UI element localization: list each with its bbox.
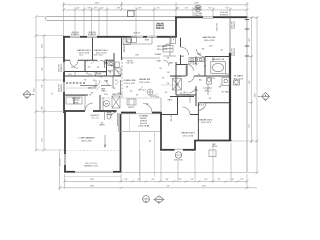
small A/C pad bottom right [209,150,216,157]
jog to bedroom2 [194,140,196,151]
svg-text:MASTER BR: MASTER BR [203,36,216,39]
svg-text:2'8: 2'8 [136,95,138,97]
svg-text:16'0: 16'0 [209,45,213,47]
patio slab lines [121,172,247,174]
bedroom3 north wall [162,114,179,116]
svg-text:10'0 x 10'0: 10'0 x 10'0 [93,54,102,56]
svg-text:A4: A4 [158,200,160,203]
entry porch walls [121,112,136,114]
svg-text:4'0": 4'0" [76,7,80,9]
svg-text:5'0: 5'0 [96,61,98,63]
right exterior wall x=247 (thin/light) [246,18,248,173]
svg-text:10'0 x 10'0: 10'0 x 10'0 [96,53,107,55]
svg-text:2'8: 2'8 [97,67,99,69]
svg-text:SHOWER: SHOWER [173,76,182,78]
svg-text:3'4: 3'4 [209,98,211,100]
master west wall [180,38,182,47]
svg-text:12'0": 12'0" [249,80,251,85]
svg-text:DW: DW [135,55,138,57]
svg-text:6'0 x 5'4: 6'0 x 5'4 [92,118,99,120]
svg-text:2668: 2668 [197,54,201,56]
svg-text:11'0": 11'0" [249,124,251,129]
round symbol at patio door [175,152,181,158]
svg-text:4'0: 4'0 [180,93,182,95]
svg-text:EGRESS: EGRESS [61,63,63,72]
right thick wall x=230 [229,53,231,141]
laundry door arc [85,103,93,111]
left exterior wall x=64 [63,36,65,113]
top dim ticks [62,3,249,11]
svg-text:17'4": 17'4" [42,138,44,143]
windows in top wall (thin) [70,36,157,37]
svg-text:4'4: 4'4 [146,104,148,106]
svg-text:A4: A4 [145,200,147,203]
laundry walls [64,94,88,96]
right section marker diamond [258,93,270,101]
svg-text:6'8: 6'8 [167,58,169,60]
svg-text:6'0": 6'0" [138,7,142,9]
svg-text:BEDROOM 3: BEDROOM 3 [94,50,108,52]
svg-text:5'8": 5'8" [176,7,180,9]
svg-text:7'4": 7'4" [156,7,160,9]
svg-text:3'4": 3'4" [204,179,207,181]
svg-text:EGRESS: EGRESS [88,34,97,36]
svg-text:12'8 CLG: 12'8 CLG [138,90,146,92]
svg-text:M. BATH: M. BATH [234,75,243,78]
svg-text:3'4: 3'4 [220,50,222,52]
svg-text:13'0": 13'0" [249,38,251,43]
svg-text:16'8: 16'8 [155,96,159,98]
svg-text:EGRESS: EGRESS [61,83,63,92]
hall/bed3 west wall [160,112,162,151]
svg-text:6'0: 6'0 [130,91,132,93]
garage left wall [64,111,66,154]
svg-text:15'4 x 20'0: 15'4 x 20'0 [139,82,150,84]
svg-text:AREA: AREA [73,101,79,104]
svg-text:2 CAR GARAGE: 2 CAR GARAGE [78,137,95,140]
svg-text:3050 SH: 3050 SH [217,23,219,31]
svg-text:9'4 x 12'0: 9'4 x 12'0 [234,78,244,80]
svg-text:10'4: 10'4 [117,76,121,78]
svg-text:16'8: 16'8 [104,94,108,96]
left section marker diamond [23,91,35,99]
bedroom3 bottom wall [160,149,175,151]
garage ceiling dashed [66,149,119,151]
svg-text:2468: 2468 [156,61,160,63]
svg-text:2: 2 [158,198,159,200]
svg-text:3'4: 3'4 [118,93,120,95]
svg-text:CLO: CLO [88,74,92,76]
svg-text:2068: 2068 [103,63,107,65]
wic walls [195,57,197,65]
svg-text:EGRESS: EGRESS [71,34,80,36]
garage door text [84,163,99,167]
svg-text:SINK: SINK [145,40,150,42]
svg-text:8'8": 8'8" [42,106,44,110]
windows in right wall [245,20,249,57]
svg-text:2068: 2068 [180,56,184,58]
svg-text:6'0": 6'0" [225,7,229,9]
svg-text:16'8: 16'8 [150,96,154,98]
svg-text:4'0: 4'0 [84,80,86,82]
svg-text:5'8": 5'8" [42,84,44,88]
svg-text:10'0: 10'0 [88,88,92,90]
svg-text:20'8": 20'8" [90,186,95,188]
svg-text:12'0 x 11'4: 12'0 x 11'4 [201,122,212,124]
svg-text:36" VAN: 36" VAN [221,91,229,94]
garage top wall [64,110,85,112]
svg-text:EGRESS: EGRESS [220,14,229,16]
svg-text:EGRESS: EGRESS [234,47,236,56]
svg-text:6'0: 6'0 [165,92,167,94]
svg-text:22'8": 22'8" [95,2,100,4]
svg-text:2'8": 2'8" [124,179,127,181]
svg-text:5'8: 5'8 [219,87,221,89]
between bedroom 4 and 3 [92,38,94,61]
svg-text:1: 1 [145,197,146,199]
dense interior dim text noise [84,61,138,97]
svg-text:GREAT RM: GREAT RM [139,78,151,81]
svg-text:2'8: 2'8 [162,78,164,80]
svg-text:6080 SGD: 6080 SGD [174,160,183,162]
svg-text:5'4 CLG: 5'4 CLG [198,104,205,106]
svg-text:11'0 x 10'0: 11'0 x 10'0 [183,135,194,137]
svg-text:24'8": 24'8" [194,2,199,4]
svg-text:GARDEN TUB: GARDEN TUB [212,58,225,61]
roof gutter lines with rounded cap [46,17,177,21]
garage bottom wall + door [64,171,75,173]
svg-text:DINING RM: DINING RM [124,80,136,82]
svg-text:11'4 x 10'0: 11'4 x 10'0 [79,53,90,55]
extra interior detail noise [88,80,153,105]
svg-text:6'8: 6'8 [202,49,204,51]
water heater [103,97,110,110]
svg-text:COND: COND [212,146,218,148]
svg-text:3'0": 3'0" [137,179,140,181]
svg-text:2'8: 2'8 [212,78,214,80]
closet walls [64,71,107,73]
kitchen west wall [121,38,123,60]
svg-text:EGRESS: EGRESS [234,20,236,29]
svg-text:5'0: 5'0 [167,83,169,85]
svg-text:6'0: 6'0 [198,74,200,76]
svg-text:6'8": 6'8" [117,7,121,9]
svg-text:ENTRY: ENTRY [128,107,135,109]
svg-text:2668: 2668 [97,74,101,76]
svg-text:CLO: CLO [68,74,72,76]
svg-text:16'0": 16'0" [90,179,95,181]
svg-text:2'0: 2'0 [117,71,119,73]
svg-text:11'4: 11'4 [79,54,82,56]
svg-text:36": 36" [111,66,114,68]
svg-text:GARAGE DOOR: GARAGE DOOR [84,164,99,167]
step wall x=176 (y17.5-35) [175,17,177,38]
svg-text:6'8: 6'8 [86,73,88,75]
svg-text:6'8: 6'8 [195,90,197,92]
svg-text:3'8": 3'8" [94,7,98,9]
svg-text:1'6: 1'6 [109,72,111,74]
svg-text:4'0": 4'0" [100,7,104,9]
bedroom2 north wall + west wall [198,102,230,104]
svg-text:3'4": 3'4" [165,179,168,181]
window labels above top wall [71,23,165,36]
svg-text:6'0 x 8'0: 6'0 x 8'0 [183,94,190,96]
bottom detail markers [143,196,164,204]
svg-text:52'0": 52'0" [34,88,36,93]
svg-text:5'8: 5'8 [113,88,115,90]
svg-text:3'4": 3'4" [151,179,154,181]
svg-text:BATH: BATH [100,124,106,127]
svg-text:PANTRY: PANTRY [123,44,126,52]
pantry with X [112,96,120,108]
svg-text:4'4: 4'4 [149,141,151,143]
svg-text:3'0: 3'0 [159,68,161,70]
top dim text [76,2,229,9]
svg-text:W.I.C. 2: W.I.C. 2 [205,91,212,93]
svg-text:2'8": 2'8" [230,179,233,181]
svg-text:24'0": 24'0" [202,186,207,188]
svg-text:6'8: 6'8 [167,72,169,74]
laundry room fixtures [66,96,85,111]
svg-text:3'0: 3'0 [88,67,90,69]
bedroom2 bottom wall [195,140,232,142]
svg-text:WINDOW: WINDOW [156,28,165,30]
svg-text:4'4": 4'4" [166,186,169,188]
svg-text:8'0 x 8'0: 8'0 x 8'0 [127,63,134,65]
powder room [105,112,118,126]
svg-text:20'0 x 20'0: 20'0 x 20'0 [81,140,92,142]
svg-text:3'0: 3'0 [115,80,117,82]
svg-text:KITCHEN: KITCHEN [157,46,167,48]
svg-text:42'0": 42'0" [255,93,257,98]
svg-text:6'0": 6'0" [208,7,212,9]
svg-text:4'0 CLG: 4'0 CLG [171,114,173,121]
svg-text:2'0": 2'0" [240,179,243,181]
svg-text:2468: 2468 [104,81,108,83]
linen closet + hall texts between kitchen and master [163,46,173,67]
svg-text:4'0": 4'0" [185,7,189,9]
svg-text:10'0": 10'0" [42,44,44,49]
svg-text:BEDROOM 2: BEDROOM 2 [199,119,213,121]
svg-text:4'8: 4'8 [126,87,128,89]
svg-text:7'4: 7'4 [89,95,91,97]
svg-text:4040 SL: 4040 SL [133,32,140,34]
svg-text:10'0 x 12'0: 10'0 x 12'0 [124,83,135,85]
svg-text:3'0": 3'0" [217,179,220,181]
svg-text:5'0: 5'0 [169,63,171,65]
svg-text:ISLAND: ISLAND [155,53,162,56]
svg-text:BEDROOM 4: BEDROOM 4 [77,50,91,52]
svg-text:CONC. SLAB: CONC. SLAB [138,125,150,128]
top dimension row 1 [64,2,248,37]
optional round vent symbol top [195,5,201,11]
svg-text:2'8: 2'8 [86,61,88,63]
svg-text:2868: 2868 [101,89,105,91]
svg-text:16'0 x 13'0: 16'0 x 13'0 [204,40,215,42]
svg-text:3'0: 3'0 [204,66,206,68]
svg-text:12'0 x 13'4: 12'0 x 13'4 [157,49,168,51]
svg-text:3'0": 3'0" [190,179,193,181]
south wall of top bedrooms [64,59,70,61]
svg-text:HALL: HALL [168,99,173,102]
svg-text:2'8": 2'8" [178,179,181,181]
svg-text:BEDROOM 3: BEDROOM 3 [181,133,195,135]
svg-text:8'4": 8'4" [42,67,44,71]
svg-text:5'4: 5'4 [93,80,95,82]
top-right exterior wall y=17.5 [175,16,248,18]
svg-text:5'0: 5'0 [52,93,54,95]
garage right wall [120,114,122,173]
master bath north wall [205,56,230,58]
top dimension row 2 [64,7,248,36]
top-left exterior wall y=35 with window gaps [63,36,176,38]
svg-text:3'8": 3'8" [87,7,91,9]
chimney box on roof line [128,11,135,17]
svg-text:10'0 x 6'0: 10'0 x 6'0 [188,64,196,66]
